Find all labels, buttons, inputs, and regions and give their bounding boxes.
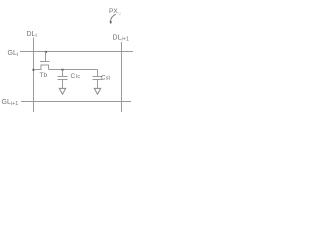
common electrode symbol below Cst (open arrowhead) [94, 88, 100, 94]
node: junction dot on DL_i (TFT source tap) [32, 69, 34, 71]
node: junction dot on GL_i (TFT gate tap) [45, 51, 47, 53]
wire: gate line GL_i+1 [21, 101, 131, 103]
wire: Cst top lead [97, 70, 99, 77]
wire: Clc top lead [62, 70, 64, 77]
svg-text:DLi+1: DLi+1 [113, 35, 129, 43]
svg-text:GLi+1: GLi+1 [2, 99, 19, 107]
transistor Tb channel [34, 65, 49, 70]
wire: data line DL_i [33, 38, 35, 113]
leader arrow from PX [111, 14, 116, 21]
svg-text:DLi: DLi [27, 31, 37, 39]
svg-text:Clc: Clc [71, 73, 81, 80]
svg-text:GLi: GLi [8, 50, 19, 58]
arrowhead of PX leader [109, 21, 112, 24]
capacitor Clc bottom plate [58, 79, 68, 81]
wire: data line DL_i+1 [121, 42, 123, 112]
wire: Cst bottom lead [97, 80, 99, 89]
node: junction dot at Clc tap [61, 69, 63, 71]
svg-text:Cst: Cst [101, 75, 110, 82]
capacitor Cst bottom plate [93, 79, 103, 81]
svg-text:Tb: Tb [40, 72, 48, 79]
transistor Tb gate bar [40, 61, 50, 63]
capacitor Clc top plate [58, 76, 68, 78]
wire: gate line GL_i [20, 51, 133, 53]
wire: TFT gate lead [45, 52, 47, 62]
capacitor Cst top plate [93, 76, 103, 78]
wire: Clc bottom lead [62, 80, 64, 89]
wire: pixel node from TFT drain to Cst [49, 69, 98, 71]
common electrode symbol below Clc (open arrowhead) [59, 88, 65, 94]
